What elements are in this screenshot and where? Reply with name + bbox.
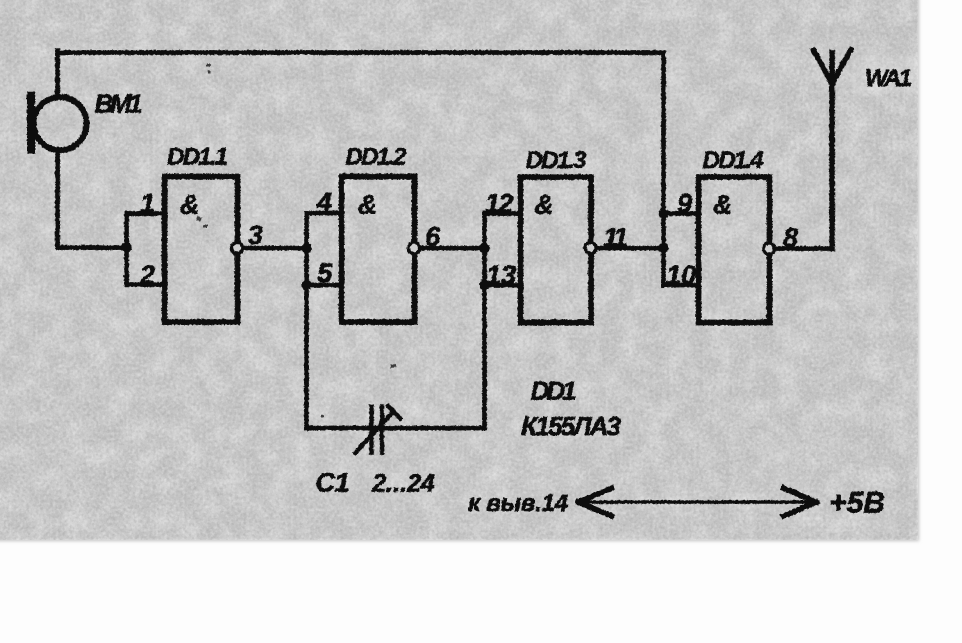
svg-text:9: 9 — [676, 188, 691, 218]
svg-text:&: & — [712, 189, 732, 219]
svg-text:11: 11 — [603, 222, 628, 252]
svg-text:WA1: WA1 — [865, 65, 912, 92]
svg-text:&: & — [179, 189, 199, 219]
svg-text:DD1.4: DD1.4 — [702, 147, 763, 174]
svg-text:&: & — [534, 189, 554, 219]
svg-text:+5В: +5В — [829, 486, 885, 519]
svg-text:к выв.14: к выв.14 — [468, 490, 568, 517]
svg-text:13: 13 — [485, 260, 515, 290]
svg-text:C1: C1 — [315, 467, 350, 497]
svg-text:2...24: 2...24 — [371, 469, 435, 497]
svg-text:DD1.2: DD1.2 — [345, 143, 407, 170]
svg-text:6: 6 — [424, 221, 440, 251]
svg-text:5: 5 — [316, 258, 332, 288]
svg-text:BM1: BM1 — [94, 88, 142, 118]
svg-text:8: 8 — [782, 222, 797, 252]
svg-text:DD1: DD1 — [530, 375, 576, 405]
svg-text:2: 2 — [138, 260, 154, 290]
svg-text:1: 1 — [139, 188, 154, 218]
svg-text:DD1.3: DD1.3 — [525, 147, 587, 174]
svg-text:12: 12 — [484, 188, 513, 218]
svg-text:DD1.1: DD1.1 — [167, 143, 228, 170]
svg-text:3: 3 — [247, 220, 262, 250]
svg-text:&: & — [357, 189, 377, 219]
svg-text:4: 4 — [315, 187, 331, 217]
svg-text:10: 10 — [665, 260, 695, 290]
svg-text:К155ЛА3: К155ЛА3 — [521, 411, 622, 441]
